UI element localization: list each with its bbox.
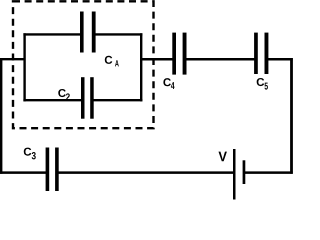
label C4	[163, 78, 174, 89]
capacitor C5	[254, 33, 268, 74]
label V	[218, 152, 226, 162]
battery V	[233, 149, 245, 200]
wire (top edge of loop, left of CA)	[23, 33, 82, 35]
capacitor C2	[81, 77, 94, 119]
wire (bottom wire, C3 to battery)	[57, 171, 234, 174]
label CA	[105, 56, 119, 67]
wire (top wire, loop to C4)	[140, 58, 174, 61]
capacitor C4	[172, 33, 186, 75]
dashed box (equivalent-capacitor boundary)	[13, 1, 154, 128]
wire (top edge of loop, right of CA)	[93, 33, 142, 35]
wire (left vertical wire)	[0, 58, 2, 174]
label C5	[257, 78, 268, 90]
wire (top wire, C5 to right corner)	[268, 58, 293, 61]
wire (right edge of parallel loop)	[140, 33, 142, 101]
wire (right vertical wire)	[290, 58, 293, 174]
wire (bottom wire, left of C3)	[0, 171, 47, 174]
capacitor CA	[80, 12, 96, 53]
label C3	[24, 148, 36, 160]
wire (bottom wire, battery to right corner)	[244, 171, 293, 174]
wire (bottom edge of loop, left of C2)	[23, 99, 82, 101]
wire (left edge of parallel loop)	[23, 33, 25, 101]
wire (top wire, C4 to C5)	[185, 58, 255, 61]
wire (bottom edge of loop, right of C2)	[92, 99, 143, 101]
label C2	[58, 89, 70, 100]
capacitor C3	[46, 148, 59, 192]
wire (left lead into parallel loop)	[0, 58, 25, 60]
